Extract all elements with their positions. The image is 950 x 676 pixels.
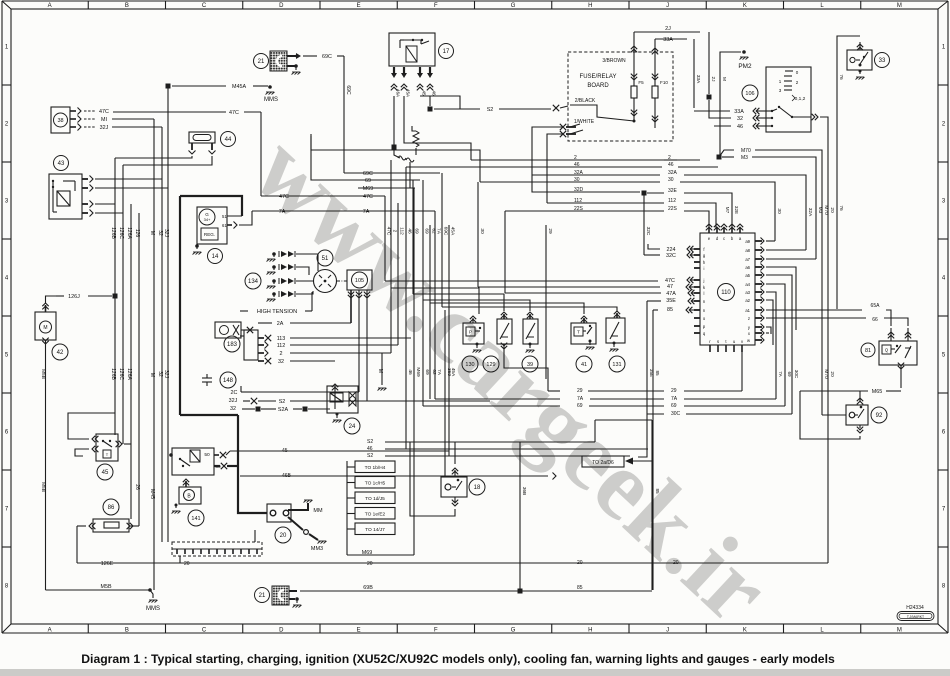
wires plugs to distributor cap	[296, 254, 318, 271]
svg-text:2A: 2A	[277, 321, 284, 327]
connector 183	[224, 336, 240, 352]
instrument cluster 110	[700, 233, 755, 345]
svg-text:M3: M3	[817, 207, 823, 214]
wires into 81	[890, 328, 892, 341]
wire 46A down to junction	[393, 96, 395, 146]
wire row 2	[471, 159, 664, 161]
wire 69C from 21	[287, 55, 295, 57]
svg-text:32J: 32J	[229, 398, 238, 404]
svg-text:a6: a6	[745, 265, 750, 270]
wire 32J vertical from junction M45A	[167, 86, 169, 542]
wire 224 to cluster	[648, 244, 660, 249]
svg-text:J: J	[666, 627, 669, 633]
wire 85 to TO 2a D6	[651, 420, 653, 590]
svg-text:2J: 2J	[665, 26, 671, 32]
svg-text:46: 46	[737, 124, 743, 130]
svg-text:38: 38	[57, 118, 63, 124]
svg-text:s: s	[717, 339, 719, 344]
svg-text:17: 17	[443, 49, 450, 55]
svg-text:z: z	[748, 316, 750, 321]
cluster left pins	[694, 248, 700, 250]
wire 126C vertical	[122, 165, 124, 444]
relay 17 output labels	[391, 84, 397, 90]
svg-text:126A: 126A	[126, 227, 132, 239]
svg-text:M: M	[897, 3, 902, 9]
svg-text:F: F	[434, 627, 438, 633]
diode box 44	[189, 132, 215, 143]
svg-text:26: 26	[134, 484, 140, 490]
wires at 92	[859, 391, 861, 401]
svg-text:126C: 126C	[118, 368, 124, 380]
fuse F10	[654, 39, 656, 86]
svg-text:34+: 34+	[204, 217, 211, 222]
svg-text:47: 47	[667, 284, 673, 290]
svg-text:85: 85	[667, 307, 673, 313]
cluster bottom pins	[709, 345, 711, 352]
svg-text:M5B: M5B	[40, 369, 46, 379]
svg-text:TO 1c/H5: TO 1c/H5	[365, 481, 386, 487]
svg-text:129: 129	[486, 362, 495, 368]
svg-text:a5: a5	[745, 273, 750, 278]
svg-text:14: 14	[212, 254, 219, 260]
svg-text:2: 2	[574, 155, 577, 161]
wire 69C vertical	[343, 56, 345, 173]
svg-text:20: 20	[829, 207, 835, 213]
svg-text:MMS: MMS	[264, 97, 278, 103]
svg-text:32: 32	[157, 371, 163, 377]
svg-text:a4: a4	[745, 282, 750, 287]
svg-text:29: 29	[671, 388, 677, 394]
condenser 148	[202, 377, 212, 379]
svg-text:A: A	[48, 3, 52, 9]
svg-text:B: B	[125, 627, 129, 633]
wire 32 vertical	[161, 127, 163, 542]
svg-text:2J: 2J	[710, 76, 716, 82]
svg-text:85: 85	[655, 370, 660, 376]
svg-text:M: M	[377, 369, 383, 373]
svg-text:45: 45	[422, 90, 427, 96]
svg-text:1/WHITE: 1/WHITE	[574, 119, 595, 125]
svg-text:K: K	[743, 3, 747, 9]
svg-text:46: 46	[407, 228, 413, 234]
svg-text:69C: 69C	[363, 171, 373, 177]
battery B	[179, 487, 201, 504]
svg-text:86: 86	[108, 505, 115, 511]
svg-text:20: 20	[673, 560, 679, 566]
svg-text:20: 20	[184, 561, 190, 567]
svg-text:M: M	[721, 77, 727, 81]
svg-text:7A: 7A	[436, 369, 442, 376]
svg-text:46: 46	[432, 90, 437, 96]
svg-text:106: 106	[745, 91, 754, 97]
oil pressure sender 130	[463, 323, 484, 344]
svg-text:22S: 22S	[574, 206, 584, 212]
wire S2 row	[434, 108, 480, 110]
svg-text:2: 2	[392, 230, 398, 233]
svg-text:32A: 32A	[668, 170, 678, 176]
wire 76 from 33	[859, 42, 861, 50]
wire row M5B bottom	[46, 589, 151, 591]
svg-text:S2: S2	[367, 453, 373, 459]
wires cluster pins to verticals right	[766, 240, 775, 242]
svg-text:51: 51	[322, 256, 329, 262]
svg-text:69C: 69C	[443, 227, 449, 236]
svg-text:3/BROWN: 3/BROWN	[602, 58, 626, 64]
svg-text:M45A: M45A	[232, 84, 246, 90]
ground MMS bottom left	[148, 588, 152, 592]
svg-text:92: 92	[876, 413, 883, 419]
svg-text:20: 20	[367, 561, 373, 567]
svg-text:65A: 65A	[871, 303, 881, 309]
svg-text:7A: 7A	[577, 396, 584, 402]
svg-text:32E: 32E	[668, 188, 678, 194]
wire row 32A	[532, 174, 660, 176]
wire 29 vertical down	[545, 225, 547, 379]
svg-text:0,1,2: 0,1,2	[795, 96, 806, 102]
wire row 46	[406, 166, 662, 168]
ignition coil	[215, 322, 241, 338]
svg-text:M70: M70	[823, 369, 829, 379]
svg-text:F: F	[434, 3, 438, 9]
relay 17 output arrows	[393, 67, 395, 74]
svg-text:32: 32	[157, 230, 163, 236]
svg-text:S2: S2	[367, 439, 373, 445]
wire M from PM2	[720, 52, 741, 157]
svg-text:32C: 32C	[666, 253, 676, 259]
svg-text:S2: S2	[487, 107, 494, 113]
svg-text:M45: M45	[149, 489, 155, 499]
svg-text:H: H	[588, 3, 592, 9]
svg-text:MM: MM	[313, 508, 323, 514]
switch contacts	[778, 106, 780, 108]
svg-text:2/BLACK: 2/BLACK	[575, 98, 596, 104]
svg-text:46B: 46B	[282, 473, 292, 479]
fan relay 24	[327, 386, 358, 413]
svg-text:29: 29	[577, 388, 583, 394]
svg-text:F10: F10	[660, 80, 668, 85]
strip connections	[179, 556, 181, 563]
svg-text:M5B: M5B	[40, 482, 46, 492]
wire M45A	[172, 85, 226, 87]
svg-text:69: 69	[424, 228, 430, 234]
svg-text:46: 46	[574, 162, 580, 168]
bulb check 21 bottom	[255, 588, 270, 603]
wire row 7A	[252, 210, 435, 212]
svg-text:D: D	[279, 627, 284, 633]
svg-text:B: B	[125, 3, 129, 9]
handbrake switch 18	[441, 477, 467, 497]
alternator warning block 38	[51, 107, 70, 133]
svg-text:69B: 69B	[363, 585, 373, 591]
svg-text:l: l	[704, 291, 705, 296]
svg-text:42: 42	[57, 350, 64, 356]
svg-text:21: 21	[259, 593, 266, 599]
frame corner diagonals	[2, 1, 11, 9]
wire M65	[900, 365, 902, 388]
svg-text:TO 2a/D6: TO 2a/D6	[592, 460, 614, 466]
fuse relay board dashed box	[568, 52, 673, 141]
svg-text:a7: a7	[745, 257, 750, 262]
double relay 17	[389, 33, 435, 66]
svg-text:110: 110	[721, 290, 731, 296]
svg-text:M: M	[897, 627, 902, 633]
wire 1/WHITE to 32D	[532, 127, 570, 192]
wire row 30	[480, 181, 660, 183]
svg-text:32E: 32E	[734, 206, 739, 214]
svg-text:REG.: REG.	[204, 232, 215, 237]
thermal switch 81	[879, 341, 917, 365]
starter motor 42	[35, 312, 56, 340]
svg-text:32J: 32J	[100, 125, 109, 131]
svg-text:G: G	[511, 627, 516, 633]
svg-text:i: i	[704, 266, 705, 271]
fan switch 92	[846, 405, 868, 425]
wire 47C row from 38	[113, 111, 226, 113]
svg-text:PM2: PM2	[738, 63, 752, 70]
wire row 47C mid	[261, 195, 385, 197]
svg-text:BOARD: BOARD	[587, 83, 609, 89]
svg-text:M70: M70	[741, 148, 751, 154]
TO 1b/H4 boxes	[355, 461, 395, 473]
wire M70 into 92 region	[822, 414, 846, 416]
wire row 29	[548, 390, 560, 392]
svg-text:69: 69	[365, 178, 371, 184]
svg-text:K: K	[743, 627, 747, 633]
board internal wires	[570, 105, 634, 121]
svg-text:G: G	[511, 3, 516, 9]
ground PM2	[742, 50, 746, 54]
svg-text:130: 130	[465, 362, 474, 368]
svg-text:S2A: S2A	[278, 407, 289, 413]
wire row S2 center	[385, 441, 595, 443]
svg-text:148: 148	[223, 378, 234, 384]
svg-text:M5B: M5B	[100, 584, 111, 590]
svg-text:7A: 7A	[778, 371, 783, 378]
ground at 24	[336, 413, 338, 418]
wire 32C to cluster	[644, 254, 660, 256]
wire row 46B	[240, 475, 548, 477]
svg-text:46A: 46A	[396, 89, 401, 98]
svg-text:126E: 126E	[101, 561, 114, 567]
svg-text:M3: M3	[741, 155, 748, 161]
svg-text:32J: 32J	[163, 370, 169, 379]
wire 32J from 38	[112, 126, 162, 128]
svg-text:69C: 69C	[322, 54, 332, 60]
svg-text:85: 85	[655, 488, 660, 494]
svg-text:43: 43	[58, 161, 65, 167]
ignition switch output wire	[792, 116, 811, 118]
svg-text:81: 81	[865, 348, 871, 354]
wire 126J	[56, 295, 64, 297]
wire 22S vertical down	[504, 211, 506, 293]
battery cable down to 20	[180, 414, 238, 416]
svg-text:2: 2	[280, 351, 283, 357]
wire M70 row	[719, 150, 734, 157]
svg-text:47C: 47C	[386, 227, 392, 236]
switch position ladder	[785, 70, 793, 72]
svg-text:47A: 47A	[666, 291, 676, 297]
svg-text:20: 20	[577, 560, 583, 566]
wire 2C	[241, 391, 252, 393]
wire 30 heavy output	[214, 465, 220, 467]
wire M69 bottom	[347, 554, 390, 556]
svg-text:HIGH TENSION: HIGH TENSION	[257, 309, 297, 315]
fuse F5	[633, 32, 635, 86]
spark plugs 134	[245, 273, 261, 289]
fuse 86	[103, 499, 119, 515]
svg-text:TO 14/J7: TO 14/J7	[365, 527, 385, 533]
junction M3/M70	[717, 155, 722, 160]
svg-text:a8: a8	[745, 248, 750, 253]
sender 131	[606, 318, 625, 343]
ground at 14	[195, 244, 199, 248]
ignition switch 106 box	[766, 67, 811, 132]
feeder rows to sensors	[391, 288, 479, 314]
svg-text:M: M	[149, 373, 155, 377]
svg-text:126J: 126J	[68, 294, 80, 300]
connector strip dashed	[172, 542, 262, 556]
wire 65A from cluster	[766, 309, 862, 311]
board left connector arrows	[560, 124, 566, 130]
svg-text:32: 32	[230, 406, 236, 412]
wire 126B vertical	[114, 158, 116, 435]
svg-text:66: 66	[872, 317, 878, 323]
svg-text:30: 30	[776, 208, 782, 214]
wire row 69 lower	[423, 405, 560, 407]
wire row 7A lower	[435, 398, 560, 400]
wire row 22S	[505, 210, 664, 212]
svg-text:35E: 35E	[666, 298, 676, 304]
svg-text:134: 134	[248, 279, 259, 285]
svg-text:T.J/MARKT: T.J/MARKT	[907, 615, 924, 619]
wire 50 output	[214, 454, 219, 456]
svg-text:a9: a9	[745, 239, 750, 244]
cluster right pins	[755, 240, 762, 242]
wire row 45	[230, 450, 449, 452]
wire 47A to cluster	[505, 292, 661, 294]
svg-text:39: 39	[527, 362, 533, 368]
svg-text:33A: 33A	[663, 37, 673, 43]
svg-text:69: 69	[414, 228, 420, 234]
wire M3 row	[722, 156, 734, 158]
svg-text:44: 44	[225, 137, 232, 143]
wire MI vertical	[112, 118, 154, 120]
wire 2A	[258, 322, 272, 324]
svg-text:33A: 33A	[734, 109, 744, 115]
svg-text:32D: 32D	[574, 187, 584, 193]
svg-text:7A: 7A	[363, 209, 370, 215]
svg-text:126B: 126B	[110, 368, 116, 380]
svg-text:126B: 126B	[110, 227, 116, 239]
svg-text:32C: 32C	[645, 227, 651, 236]
svg-text:29: 29	[547, 228, 553, 234]
wire row M69	[358, 187, 415, 189]
wire row 30C lower	[647, 413, 664, 415]
wire 47C to cluster	[385, 280, 658, 282]
svg-text:105: 105	[355, 278, 364, 284]
wire MM3	[288, 517, 303, 530]
svg-text:36B: 36B	[521, 487, 527, 496]
svg-text:T: T	[577, 330, 580, 335]
junction box 20	[267, 504, 291, 522]
svg-text:M: M	[149, 231, 155, 235]
svg-text:7A: 7A	[279, 209, 286, 215]
svg-text:76: 76	[838, 74, 844, 80]
svg-text:30: 30	[668, 177, 674, 183]
ignition module 105	[347, 270, 372, 290]
svg-text:30: 30	[574, 177, 580, 183]
svg-text:30C: 30C	[671, 411, 681, 417]
wire 46 to S2 tee	[430, 96, 460, 109]
wire 66 from cluster	[766, 317, 866, 319]
wire from 86 down	[76, 526, 78, 563]
svg-text:30: 30	[479, 228, 485, 234]
wire row 69	[311, 136, 420, 180]
svg-text:113: 113	[277, 336, 286, 342]
svg-text:61: 61	[222, 223, 227, 228]
wire row 112	[547, 202, 664, 204]
svg-text:32: 32	[278, 359, 284, 365]
svg-text:a2: a2	[745, 298, 750, 303]
oil switch 33	[847, 50, 872, 70]
svg-text:69: 69	[577, 403, 583, 409]
svg-text:45A: 45A	[450, 227, 456, 236]
svg-text:30C: 30C	[794, 370, 799, 379]
svg-text:TO 1d/J5: TO 1d/J5	[365, 496, 385, 502]
svg-text:24: 24	[349, 424, 356, 430]
svg-text:a3: a3	[745, 290, 750, 295]
svg-text:126: 126	[134, 229, 140, 238]
svg-text:TO 1e/E2: TO 1e/E2	[365, 512, 386, 518]
svg-text:M70: M70	[823, 205, 829, 215]
svg-text:a1: a1	[745, 308, 750, 313]
svg-text:F5: F5	[638, 80, 644, 85]
wire row 69C	[344, 172, 440, 174]
wire 47C vertical drop	[260, 112, 262, 196]
svg-text:126A: 126A	[126, 368, 132, 380]
svg-text:M7: M7	[725, 207, 730, 214]
svg-text:45: 45	[102, 470, 109, 476]
wires from 105 down	[350, 290, 352, 323]
wire row 46 center	[385, 448, 648, 450]
wire 126A vertical	[130, 204, 132, 519]
svg-text:20: 20	[829, 371, 835, 377]
svg-text:69: 69	[424, 369, 430, 375]
svg-text:22S: 22S	[668, 206, 678, 212]
wire 32 to relay 24	[334, 388, 336, 409]
TO 2a/D6 box	[582, 456, 624, 467]
svg-text:M69: M69	[363, 186, 374, 192]
wire row 20 bottom	[77, 562, 828, 564]
svg-text:41: 41	[581, 362, 587, 368]
suppressor waves	[398, 156, 406, 160]
wire 61 output of 14	[227, 224, 232, 226]
svg-text:46: 46	[407, 369, 413, 375]
ground MMS at 21 top	[287, 65, 296, 67]
svg-text:M69: M69	[362, 550, 373, 556]
ignition warning lamp 21 top	[254, 54, 269, 69]
wire row 69B 85	[300, 590, 652, 592]
wires 33A 32 46 into switch	[694, 110, 730, 112]
svg-text:112: 112	[668, 198, 676, 204]
ballast resistor	[412, 126, 416, 131]
svg-text:69: 69	[671, 403, 677, 409]
svg-text:C: C	[202, 3, 207, 9]
svg-text:45A: 45A	[450, 368, 456, 377]
svg-text:C: C	[202, 627, 207, 633]
wires from 44	[191, 143, 193, 150]
svg-text:183: 183	[227, 342, 238, 348]
